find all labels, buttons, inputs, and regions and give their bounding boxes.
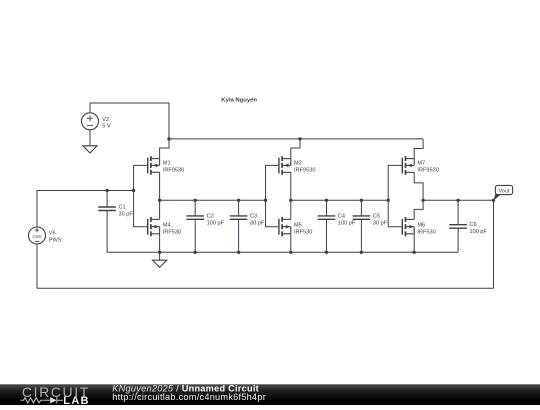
node M5 source (289, 251, 292, 254)
capacitor C6 (100 pF) (449, 200, 467, 252)
transistor M1 (IRF9530 P-MOSFET) (148, 156, 160, 175)
wire stage 3 output rail to Vout (423, 199, 493, 201)
wire V6 top lead to gate rail (37, 191, 134, 227)
wire stage 1 output rail (160, 199, 266, 201)
node C2 top (194, 199, 197, 202)
svg-text:100 pF: 100 pF (470, 229, 488, 235)
wire M2-M5 drain connection (290, 172, 292, 219)
voltage source V6 (PWS) (29, 227, 46, 244)
svg-text:V2: V2 (102, 117, 109, 123)
svg-text:C4: C4 (338, 213, 345, 219)
node stage 3 input (387, 199, 390, 202)
transistor M7 (IRF9530 P-MOSFET) (402, 156, 414, 175)
svg-text:C5: C5 (373, 213, 380, 219)
ground symbol on bottom rail (153, 260, 167, 267)
node M6 source (413, 251, 416, 254)
node Vout (492, 199, 495, 202)
ground below V2 (83, 146, 97, 153)
svg-text:30 pF: 30 pF (373, 220, 388, 226)
wire M5 source lead (290, 234, 292, 253)
svg-text:PWS: PWS (49, 237, 62, 243)
svg-text:M5: M5 (294, 222, 302, 228)
svg-text:IRF9530: IRF9530 (163, 167, 184, 173)
node C3 bottom (237, 251, 240, 254)
svg-text:C2: C2 (207, 213, 214, 219)
wire M1 source jog (160, 139, 169, 159)
node stage 1 output (158, 199, 161, 202)
wire V6 bottom lead (36, 244, 38, 288)
node C4 top (325, 199, 328, 202)
node C4 bottom (325, 251, 328, 254)
wire M6 source lead (413, 234, 415, 253)
wire M4 source lead (159, 234, 161, 253)
wire VDD rail (169, 138, 423, 140)
wire M2 source jog (291, 139, 300, 159)
svg-text:IRF530: IRF530 (294, 229, 312, 235)
node C5 bottom (360, 251, 363, 254)
svg-text:M6: M6 (417, 222, 425, 228)
svg-text:IRF530: IRF530 (163, 229, 181, 235)
node flag Vout (493, 194, 500, 201)
svg-text:M4: M4 (163, 222, 171, 228)
wire stage 1 gate riser (134, 165, 148, 226)
svg-text:C6: C6 (470, 222, 477, 228)
wire M1-M4 drain connection (159, 172, 161, 219)
node C3 top (237, 199, 240, 202)
svg-text:5 V: 5 V (102, 124, 111, 130)
wire V2 negative lead (89, 130, 91, 146)
node C6 top (456, 199, 459, 202)
wire feedback return rail (37, 200, 494, 288)
svg-text:LAB: LAB (63, 395, 90, 405)
svg-text:http://circuitlab.com/c4numk6f: http://circuitlab.com/c4numk6f5h4pr (112, 392, 266, 402)
svg-text:Vout: Vout (499, 189, 510, 195)
wire stage 2 output rail (291, 199, 388, 201)
svg-text:C3: C3 (250, 213, 257, 219)
svg-text:30 pF: 30 pF (119, 211, 134, 217)
capacitor C5 (30 pF) (353, 200, 371, 252)
transistor M4 (IRF530 N-MOSFET) (148, 217, 160, 236)
wire ground stub (159, 252, 161, 260)
svg-text:IRF9530: IRF9530 (294, 167, 315, 173)
transistor M5 (IRF530 N-MOSFET) (279, 217, 291, 236)
svg-text:IRF9530: IRF9530 (417, 167, 438, 173)
svg-text:IRF530: IRF530 (417, 229, 435, 235)
svg-text:M7: M7 (417, 160, 425, 166)
svg-text:V6: V6 (49, 231, 56, 237)
capacitor C1 (30 pF) (98, 191, 116, 253)
node C1 top (105, 189, 108, 192)
svg-text:30 pF: 30 pF (250, 220, 265, 226)
node M4 source / ground (158, 251, 161, 254)
logo resistor and diode glyph (21, 397, 64, 403)
node C2 bottom (194, 251, 197, 254)
capacitor C3 (30 pF) (230, 200, 248, 252)
wire M7-M6 drain connection (414, 172, 423, 219)
node C5 top (360, 199, 363, 202)
node stage 2 input (264, 199, 267, 202)
wire stage 2 gate riser (266, 165, 279, 226)
svg-text:100 pF: 100 pF (338, 220, 356, 226)
capacitor C4 (100 pF) (318, 200, 336, 252)
node VDD at V2 drop (167, 137, 170, 140)
transistor M6 (IRF530 N-MOSFET) (402, 217, 414, 236)
node gate rail / C1 junction (132, 189, 135, 192)
svg-text:C1: C1 (119, 205, 126, 211)
svg-text:100 pF: 100 pF (207, 220, 225, 226)
svg-text:Kyla Nguyen: Kyla Nguyen (221, 98, 257, 104)
wire V2 top to VDD node (90, 103, 169, 139)
svg-text:M2: M2 (294, 160, 302, 166)
svg-text:M1: M1 (163, 160, 171, 166)
node VDD at M2 (298, 137, 301, 140)
node stage 3 output (421, 199, 424, 202)
wire stage 3 gate riser (388, 165, 402, 226)
transistor M2 (IRF9530 P-MOSFET) (279, 156, 291, 175)
voltage source V2 (5 V) (82, 113, 99, 130)
wire bottom ground rail (107, 251, 458, 253)
capacitor C2 (100 pF) (186, 200, 204, 252)
node stage 2 output (289, 199, 292, 202)
wire M7 source jog (414, 139, 423, 159)
wire V2 positive lead (89, 103, 91, 112)
svg-text:CSV: CSV (32, 234, 42, 239)
